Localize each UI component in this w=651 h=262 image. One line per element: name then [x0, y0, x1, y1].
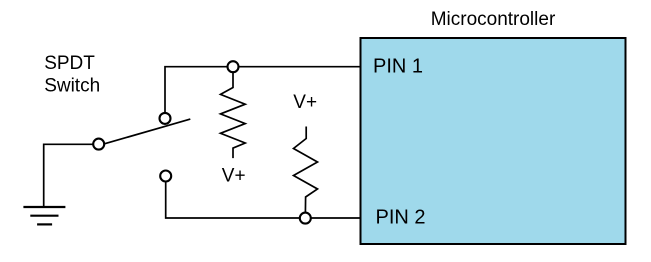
wire: top net to PIN 1: [165, 67, 360, 112]
switch SW1 lever: [105, 119, 191, 144]
switch throw terminal (top): [160, 113, 171, 124]
microcontroller block U1: [361, 38, 626, 244]
resistor R1: [221, 72, 246, 158]
node on PIN 1 wire: [228, 61, 239, 72]
svg-text:V+: V+: [222, 165, 246, 186]
svg-text:Switch: Switch: [44, 76, 100, 97]
switch throw terminal (bottom): [160, 171, 171, 182]
svg-text:PIN 2: PIN 2: [376, 206, 426, 228]
switch common terminal: [93, 139, 104, 150]
svg-text:SPDT: SPDT: [44, 53, 95, 74]
svg-text:PIN 1: PIN 1: [373, 56, 423, 78]
svg-text:Microcontroller: Microcontroller: [431, 9, 556, 30]
wire: switch common to ground: [44, 144, 99, 207]
wire: bottom net to PIN 2: [166, 176, 360, 218]
label SPDT Switch: [44, 53, 100, 97]
svg-text:V+: V+: [293, 92, 317, 113]
ground: [23, 207, 65, 224]
node on PIN 2 wire: [300, 213, 311, 224]
resistor R2: [294, 127, 318, 213]
